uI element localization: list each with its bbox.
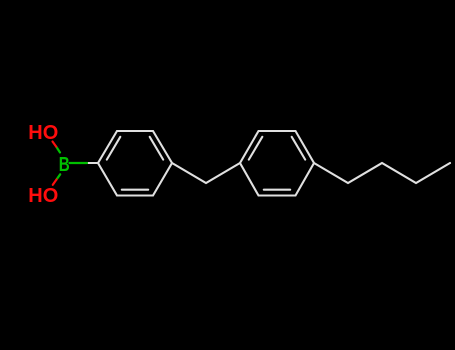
svg-text:HO: HO bbox=[28, 185, 58, 207]
svg-text:B: B bbox=[59, 154, 70, 176]
svg-text:HO: HO bbox=[28, 122, 58, 144]
